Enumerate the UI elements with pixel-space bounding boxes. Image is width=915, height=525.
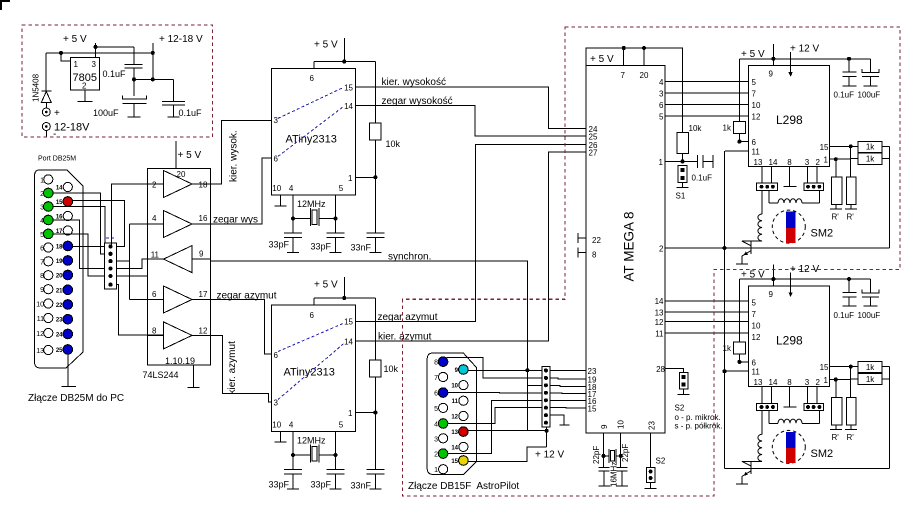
wire +5V branch to 0.1uF [96, 46, 135, 48]
node enable bottom L298 pin11 [723, 369, 727, 373]
wire ATMEGA pin13 to L298b pin7 [665, 311, 748, 313]
wire +5V rail ATiny1 [314, 38, 375, 69]
node pin9 rail [771, 57, 775, 61]
wire header r1 to ATMEGA pin23 [550, 369, 586, 371]
switch S2 (mode) [680, 373, 689, 389]
pin 10 [44, 299, 53, 308]
wire p4 to header r6 [448, 408, 542, 424]
svg-text:1N5408: 1N5408 [32, 73, 41, 102]
wire pin1 row [829, 379, 850, 381]
svg-text:6: 6 [752, 138, 757, 147]
svg-text:12MHz: 12MHz [297, 435, 326, 445]
pin 7 [44, 257, 53, 266]
crystal X2 12MHz [310, 445, 319, 463]
svg-text:14: 14 [344, 102, 353, 111]
svg-text:-: - [53, 129, 56, 140]
svg-text:15: 15 [820, 143, 829, 152]
svg-text:33pF: 33pF [311, 480, 332, 490]
svg-text:5: 5 [434, 406, 438, 413]
capacitor 0.1uF (L298) [848, 59, 850, 72]
wire enable vertical (top L298 pin11 to bottom transistor) [724, 151, 726, 469]
svg-text:0.1uF: 0.1uF [692, 174, 713, 183]
internal link dashed 3-15 [278, 87, 344, 118]
node pin1/R' [834, 157, 838, 161]
svg-text:6: 6 [152, 290, 157, 299]
svg-text:11: 11 [37, 316, 44, 323]
wire ground stub 74LS244 [193, 365, 195, 388]
pin 15 [459, 456, 469, 466]
svg-text:9: 9 [600, 424, 609, 429]
inductor winding vertical [758, 434, 762, 461]
ground R'2 [845, 208, 857, 210]
wire to vertical winding [761, 190, 763, 214]
node pin15 [849, 365, 853, 369]
capacitor 33nF [374, 177, 376, 233]
pin 9 [459, 365, 469, 375]
resistor 1k enable pullup [738, 59, 740, 122]
wire pin23b to S2 jumper [650, 433, 652, 467]
connector J2 DB15F outline [427, 353, 476, 474]
svg-text:2: 2 [816, 378, 821, 387]
svg-text:3: 3 [92, 60, 97, 69]
wire ATMEGA pin6 to L298 pin10 [665, 104, 748, 106]
svg-text:SM2: SM2 [811, 448, 834, 460]
wire to horizontal winding left [769, 411, 778, 424]
ground S2 bottom [645, 487, 657, 489]
wire out16 to ATiny1 pin6 (zegar wys) [211, 158, 272, 224]
svg-text:100uF: 100uF [858, 311, 881, 320]
wire pin2 synchro-enable row [665, 247, 890, 249]
svg-text:10: 10 [272, 421, 281, 430]
resistor 1k #1 [851, 366, 859, 368]
svg-text:14: 14 [56, 186, 63, 192]
svg-text:22pF: 22pF [621, 444, 630, 462]
wire pin1 to 10k node [356, 412, 376, 414]
pin 4 [44, 215, 54, 225]
svg-text:zegar azymut: zegar azymut [217, 291, 277, 302]
node +5V rail [342, 296, 346, 300]
svg-text:12: 12 [752, 333, 761, 342]
resistor R' #1 [835, 159, 837, 177]
svg-text:3: 3 [659, 90, 664, 99]
svg-text:14: 14 [451, 445, 458, 451]
svg-text:4: 4 [152, 214, 157, 223]
svg-text:7: 7 [621, 71, 626, 80]
node enable junction [723, 246, 727, 250]
svg-text:5: 5 [40, 232, 44, 239]
ground DB25 [62, 385, 77, 387]
svg-text:7: 7 [752, 90, 757, 99]
svg-text:18: 18 [56, 245, 63, 251]
pin 6 [438, 388, 448, 398]
wire pin9 supply [772, 44, 774, 66]
pin 13 [44, 345, 53, 354]
svg-text:+ 12-18 V: + 12-18 V [159, 34, 203, 45]
svg-text:7: 7 [40, 259, 44, 266]
node 12-18V rail right [151, 51, 155, 55]
svg-text:synchron.: synchron. [388, 252, 431, 263]
node pin7 [622, 46, 626, 50]
svg-text:20: 20 [640, 71, 649, 80]
capacitor 33nF [374, 413, 376, 470]
ground 7805 [78, 101, 93, 103]
wire horizontal winding right [802, 190, 819, 203]
svg-text:1k: 1k [723, 124, 732, 133]
svg-text:2: 2 [659, 245, 664, 254]
wire header r6 to ATMEGA pin15 [550, 407, 586, 409]
wire minus stub [45, 131, 47, 138]
node reset [681, 159, 685, 163]
wire p3 to header [53, 207, 105, 262]
pin 7 [439, 372, 448, 381]
internal link dashed 6-14 [278, 107, 344, 157]
wire synchron (buffer9 to right) [211, 261, 543, 431]
buffer A4 triangle [164, 286, 193, 313]
pin 13 [459, 427, 469, 437]
svg-text:15: 15 [588, 405, 597, 414]
wire pin1 row [829, 158, 850, 160]
wire p9 cyan to header r1 [468, 369, 542, 371]
ground R'1 [830, 208, 842, 210]
svg-text:1k: 1k [866, 155, 875, 164]
buffer A3 triangle (reversed) [164, 246, 193, 273]
svg-text:1: 1 [824, 376, 829, 385]
wire pin6 [739, 141, 748, 143]
svg-text:R': R' [847, 433, 855, 442]
capacitor 0.1uF reset [683, 155, 713, 168]
svg-text:10: 10 [752, 321, 761, 330]
svg-text:kier. azymut: kier. azymut [227, 341, 238, 395]
resistor 1k #1 [851, 145, 859, 147]
pin 3 [439, 434, 448, 443]
wire pin1 to 10k node [356, 176, 376, 178]
pin 15 [63, 197, 73, 207]
ground rotated (cap) [712, 155, 714, 168]
crystal X1 12MHz [310, 208, 319, 226]
wire pin9 to crystal [604, 433, 609, 456]
wire sense return vertical [889, 367, 891, 469]
corner mark top-left [0, 0, 10, 10]
wire header r4 to ATMEGA pin17 [550, 392, 586, 395]
svg-text:9: 9 [769, 70, 774, 79]
svg-text:6: 6 [274, 351, 279, 360]
svg-text:12: 12 [655, 318, 664, 327]
wire horizontal winding right [802, 411, 819, 424]
wire pin14 lead [771, 387, 773, 404]
svg-text:3: 3 [40, 205, 44, 212]
svg-text:ATiny2313: ATiny2313 [284, 367, 335, 379]
svg-text:S2: S2 [675, 404, 685, 413]
svg-text:+ 5 V: + 5 V [741, 49, 765, 60]
wire pin28 to S2 [665, 369, 684, 373]
IC U3 ATiny2313 box [272, 69, 356, 196]
svg-text:2: 2 [152, 181, 157, 190]
inductor winding horizontal [778, 419, 802, 423]
svg-text:18: 18 [199, 181, 208, 190]
svg-text:+ 5 V: + 5 V [741, 269, 765, 280]
svg-text:24: 24 [56, 333, 63, 339]
svg-text:25: 25 [56, 348, 63, 354]
svg-text:1k: 1k [866, 363, 875, 372]
svg-text:11: 11 [655, 329, 664, 338]
capacitor 33pF left [292, 219, 294, 234]
pin 14 [459, 442, 468, 451]
svg-text:22pF: 22pF [592, 446, 601, 464]
svg-text:1: 1 [74, 60, 79, 69]
wire buffer3 output to header d4 [116, 259, 147, 269]
svg-text:0.1uF: 0.1uF [834, 311, 855, 320]
svg-text:13: 13 [655, 308, 664, 317]
wire header r3 to ATMEGA pin18 [550, 385, 586, 386]
buffer A5 triangle [164, 322, 193, 349]
svg-text:12: 12 [451, 415, 458, 421]
capacitor 100uF (L298) [869, 59, 871, 73]
wire pin15 [829, 366, 850, 368]
resistor 1k enable pullup [738, 279, 740, 342]
pin 16 [63, 211, 72, 220]
wire out18 to ATiny1 pin3 (kier. wysok.) [211, 120, 272, 184]
ground 0.1uF (L298) [843, 85, 857, 87]
svg-text:8: 8 [592, 250, 597, 259]
wire 7805 pin3 from +5V [95, 47, 97, 58]
pin 6 [44, 243, 53, 252]
svg-text:9: 9 [40, 287, 44, 294]
svg-text:19: 19 [56, 259, 63, 265]
svg-text:1: 1 [348, 174, 353, 183]
svg-text:22: 22 [592, 236, 601, 245]
svg-text:L298: L298 [776, 333, 803, 347]
svg-text:11: 11 [752, 147, 761, 156]
internal link dashed 3-14 [278, 344, 344, 400]
pin 24 [63, 329, 73, 339]
node pin1/R' [834, 378, 838, 382]
svg-text:kier. wysok.: kier. wysok. [229, 130, 240, 182]
svg-text:11: 11 [452, 399, 459, 405]
svg-text:6: 6 [752, 358, 757, 367]
svg-text:zegar wysokość: zegar wysokość [382, 96, 453, 107]
IC U6 L298 box [748, 66, 829, 167]
svg-text:3: 3 [805, 158, 810, 167]
header pin dots [108, 244, 112, 248]
wire +12-18V lead down [152, 43, 154, 79]
svg-text:13: 13 [451, 430, 458, 436]
wire ATMEGA pin5 to L298 pin12 [665, 115, 748, 117]
svg-text:6: 6 [434, 391, 438, 398]
dashed outline main controller region [403, 27, 901, 496]
wire supply top rail [739, 278, 870, 280]
wire pin20 stub [643, 48, 645, 66]
svg-text:100uF: 100uF [858, 91, 881, 100]
wire ATMEGA pin11 to L298b pin12 [665, 332, 748, 334]
wire pin6 [739, 361, 748, 363]
pin 1 [439, 465, 448, 474]
svg-text:1: 1 [824, 156, 829, 165]
svg-text:+: + [54, 108, 60, 119]
svg-text:9: 9 [769, 290, 774, 299]
diode D1 1N5408 [41, 90, 51, 92]
terminal block right [804, 183, 823, 190]
pin 3 [44, 202, 54, 212]
ground transistor [736, 483, 748, 485]
wire pin10 ground stub [280, 432, 282, 443]
capacitor 22pF right [620, 456, 622, 467]
motor SM2 dashed circle [772, 210, 805, 243]
svg-text:8: 8 [152, 327, 157, 336]
pin 14 [63, 182, 72, 191]
wire p2 to header r5 [448, 400, 542, 453]
buffer A2 triangle [164, 211, 193, 238]
svg-text:11: 11 [752, 368, 761, 377]
pin 12 [44, 328, 53, 337]
wire diode branch down [45, 53, 47, 91]
svg-text:1k: 1k [866, 375, 875, 384]
node crystal right [334, 217, 338, 221]
resistor R' #1 [835, 380, 837, 398]
svg-text:S1: S1 [676, 192, 686, 201]
header pin dots [544, 368, 548, 372]
svg-text:9: 9 [199, 250, 204, 259]
ground 22pF right [616, 485, 628, 487]
pin 1 [44, 175, 53, 184]
wire 7805 pin2 ground stub [84, 90, 86, 102]
svg-text:14: 14 [344, 337, 353, 346]
svg-text:10: 10 [752, 101, 761, 110]
svg-text:23: 23 [56, 318, 63, 324]
svg-text:2: 2 [434, 452, 438, 459]
wire pin11 [725, 370, 748, 372]
svg-text:Port DB25M: Port DB25M [38, 156, 76, 163]
wire pin13 lead [761, 166, 763, 183]
node +12V [545, 429, 549, 433]
wire p8 to header r2 [447, 358, 543, 378]
ground 22pF left [598, 485, 610, 487]
svg-text:+ 12 V: + 12 V [790, 44, 820, 55]
svg-text:4: 4 [289, 421, 294, 430]
wire kier. azymut ATiny2 pin14 to ATMEGA pin27 [356, 152, 587, 341]
wire pin5 to crystal [319, 195, 335, 219]
pin 8 [44, 271, 53, 280]
svg-text:12: 12 [36, 331, 44, 338]
wire +5V to pin 20 [175, 141, 177, 169]
svg-text:zegar wys: zegar wys [213, 215, 258, 226]
svg-text:+ 5 V: + 5 V [314, 280, 338, 291]
capacitor 33pF right [335, 219, 337, 234]
capacitor 33pF left [292, 455, 294, 470]
transistor Q1 [750, 241, 752, 254]
terminal block right [804, 403, 823, 410]
wire out17 to ATiny2 pin6 (zegar azymut) [211, 300, 272, 355]
wire pin10 ground stub [280, 195, 282, 206]
header J3 programming [105, 243, 117, 289]
dashed box power supply [22, 25, 213, 137]
wire pin7 stub [623, 48, 625, 66]
pin 8 ground [578, 252, 586, 254]
svg-text:AT MEGA 8: AT MEGA 8 [622, 211, 637, 281]
wire pin5 to crystal [319, 432, 335, 456]
svg-text:L298: L298 [776, 113, 803, 127]
svg-text:15: 15 [344, 318, 353, 327]
node +5V rail [342, 60, 346, 64]
svg-text:0.1uF: 0.1uF [834, 91, 855, 100]
ground 100uF (L298) [863, 85, 877, 87]
wire pin9 supply [772, 264, 774, 286]
header J4 AstroPilot [542, 367, 550, 427]
svg-text:15: 15 [451, 459, 458, 465]
svg-text:2: 2 [40, 191, 44, 198]
wire p5 to header [53, 234, 105, 276]
wire p15 yellow to +12V node [468, 447, 546, 462]
pin 11 [459, 396, 468, 405]
capacitor C3 0.1uF (right) [173, 79, 175, 101]
svg-text:4: 4 [659, 78, 664, 87]
svg-text:13: 13 [754, 378, 763, 387]
resistor R' #2 [850, 159, 852, 177]
svg-text:1k: 1k [866, 143, 875, 152]
svg-text:SM2: SM2 [811, 228, 834, 240]
ground R'2 [845, 428, 857, 430]
wire zegar azymut ATiny2 pin15 to ATMEGA pin26 [356, 144, 587, 321]
svg-text:6: 6 [310, 74, 315, 83]
magnet south (red) [786, 228, 795, 243]
ground pin8 [784, 186, 797, 188]
node crystal right [619, 454, 623, 458]
svg-text:100uF: 100uF [93, 108, 119, 118]
ground 0.1uF [168, 116, 180, 118]
svg-text:33pF: 33pF [269, 240, 290, 250]
svg-text:33pF: 33pF [311, 242, 332, 252]
IC U4 ATiny2313 box [272, 305, 356, 432]
svg-text:+ 5 V: + 5 V [590, 54, 614, 65]
node pin20 [642, 46, 646, 50]
pin 12 [459, 411, 468, 420]
svg-text:R': R' [847, 213, 855, 222]
ground pin10 [275, 205, 287, 207]
capacitor C1 0.1uF (top) [133, 47, 135, 65]
svg-text:+ 12 V: + 12 V [535, 450, 565, 461]
svg-text:11: 11 [151, 251, 160, 260]
svg-text:10: 10 [616, 420, 625, 429]
IC U2 74LS244 box [147, 169, 210, 366]
wire pin3 lead [807, 387, 809, 404]
pin 22 [63, 300, 73, 310]
wire pin8 ground lead [789, 387, 791, 407]
node pin15 [849, 144, 853, 148]
wire pin4 to crystal [293, 432, 310, 456]
svg-text:8: 8 [787, 158, 792, 167]
wire sense return vertical [889, 146, 891, 248]
wire bottom transistor base row [725, 467, 890, 469]
ground 33pF right [330, 252, 342, 254]
ground 33pF left [287, 488, 299, 490]
wire out12 to ATiny2 pin3 (kier. azymut) [211, 335, 272, 402]
svg-text:kier. azymut: kier. azymut [378, 332, 432, 343]
svg-text:10: 10 [451, 384, 458, 390]
wire pin2 lead [816, 166, 818, 183]
pin 8 [438, 357, 448, 367]
wire header ground stub [550, 415, 564, 425]
svg-text:14: 14 [769, 378, 778, 387]
svg-text:5: 5 [752, 78, 757, 87]
ground 33nF [370, 252, 382, 254]
node crystal left [291, 453, 295, 457]
pin 23 [63, 314, 73, 324]
svg-text:2: 2 [816, 158, 821, 167]
terminal plus input [42, 108, 50, 116]
svg-text:12MHz: 12MHz [297, 199, 326, 209]
resistor 1k #2 [851, 146, 859, 158]
svg-text:4: 4 [289, 184, 294, 193]
wire header r5 to ATMEGA pin16 [550, 399, 586, 401]
